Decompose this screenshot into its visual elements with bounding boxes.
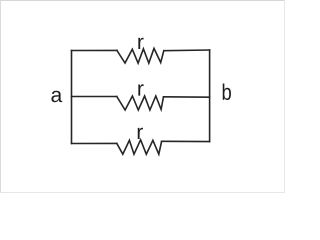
wire: bottom branch left lead xyxy=(72,142,117,144)
wire: left rail between node a and top/bottom branches xyxy=(71,51,73,144)
label r (top resistor value) xyxy=(138,38,143,49)
wire: bottom branch right lead xyxy=(162,140,210,142)
label r (middle resistor value) xyxy=(138,84,143,95)
resistor r (bottom) xyxy=(117,140,162,154)
wire: right rail between node b and top/bottom branches xyxy=(209,50,211,142)
resistor r (top) xyxy=(117,48,164,63)
wire: top branch right lead xyxy=(164,49,210,52)
wire: top branch left lead xyxy=(72,49,117,51)
wire: middle branch right lead to node b xyxy=(164,96,210,98)
wire: middle branch left lead from node a xyxy=(72,96,117,98)
resistor r (middle) xyxy=(117,96,164,110)
node a label xyxy=(51,91,62,103)
node b label xyxy=(223,84,231,101)
outer frame xyxy=(0,0,285,193)
label r (bottom resistor value) xyxy=(138,128,143,139)
